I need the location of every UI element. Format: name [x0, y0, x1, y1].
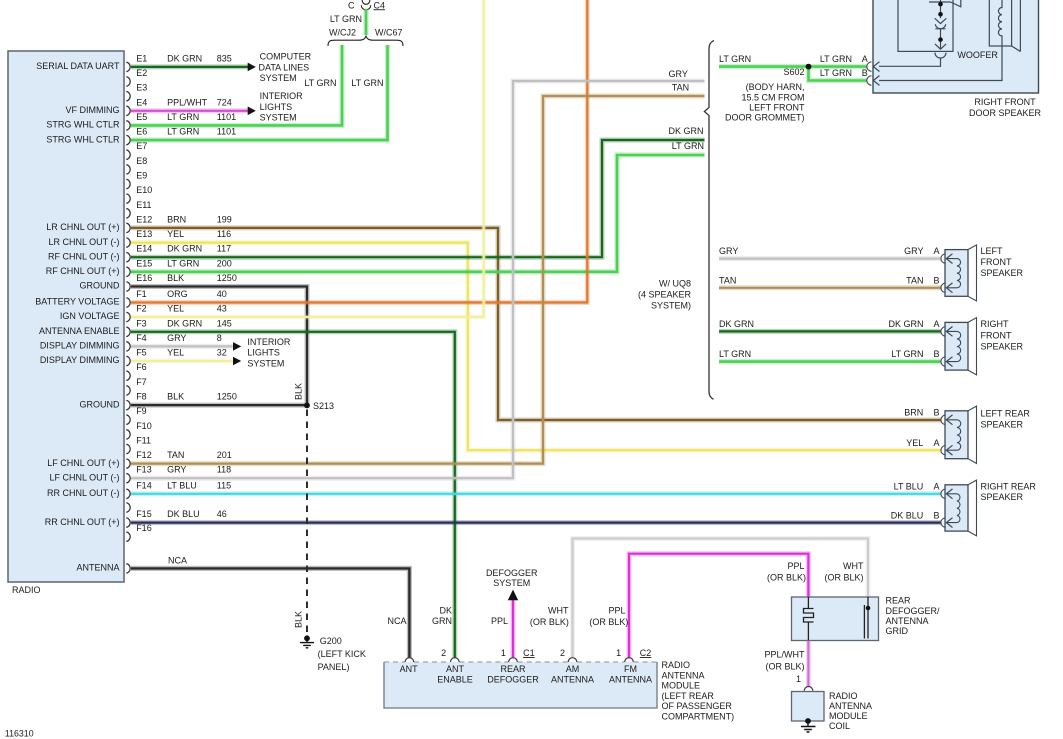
wire PPL/WHT (OR BLK) grid to coil [806, 641, 811, 687]
wire E6 LT GRN 1101 to W/C67 [131, 45, 388, 140]
svg-text:VF DIMMING: VF DIMMING [66, 105, 120, 115]
svg-text:ANTENNA: ANTENNA [76, 563, 119, 573]
svg-text:IGN VOLTAGE: IGN VOLTAGE [60, 311, 120, 321]
labels W/CJ2 W/C67 [329, 28, 403, 38]
svg-text:STRG WHL CTLR: STRG WHL CTLR [46, 120, 120, 130]
svg-text:LEFT REAR: LEFT REAR [981, 409, 1031, 419]
svg-text:SPEAKER: SPEAKER [981, 268, 1024, 278]
svg-text:ANT: ANT [446, 664, 465, 674]
labels LT GRN A / LT GRN B at door speaker [719, 54, 868, 78]
wire LT GRN from C4 [363, 9, 368, 35]
label LT GRN (C4 wire) [330, 14, 362, 24]
svg-text:DEFOGGER: DEFOGGER [486, 568, 538, 578]
svg-text:ANTENNA ENABLE: ANTENNA ENABLE [39, 326, 120, 336]
svg-text:GRY: GRY [167, 465, 186, 475]
wire BLK dashed S213 to G200 [306, 410, 308, 636]
svg-text:A: A [933, 319, 939, 329]
svg-text:F7: F7 [136, 377, 147, 387]
connector C4 symbol [361, 0, 370, 10]
svg-text:RADIO: RADIO [12, 585, 41, 595]
svg-text:32: 32 [217, 348, 227, 358]
labels BRN B (left rear) [904, 407, 939, 417]
label RIGHT FRONT SPEAKER [981, 319, 1024, 351]
svg-text:E4: E4 [136, 97, 147, 107]
svg-text:46: 46 [217, 509, 227, 519]
svg-text:GRY: GRY [167, 333, 186, 343]
svg-text:BATTERY VOLTAGE: BATTERY VOLTAGE [35, 297, 119, 307]
label W/ UQ8 (4 speaker system) [638, 278, 692, 310]
labels DK GRN A (right front) [719, 319, 940, 329]
module pin sockets [405, 658, 633, 662]
svg-text:E8: E8 [136, 156, 147, 166]
wire E5 LT GRN 1101 to W/CJ2 [131, 45, 342, 125]
module top edge (dashed) [384, 661, 657, 663]
svg-text:F3: F3 [136, 318, 147, 328]
svg-text:DEFOGGER/: DEFOGGER/ [886, 606, 941, 616]
wire colour and circuit number labels [167, 53, 237, 519]
door speaker inner circuit box [898, 0, 953, 51]
svg-text:SPEAKER: SPEAKER [981, 341, 1024, 351]
svg-text:SYSTEM: SYSTEM [260, 73, 297, 83]
label S602 body harness location [725, 82, 805, 122]
svg-text:GRID: GRID [886, 626, 909, 636]
svg-text:SERIAL DATA UART: SERIAL DATA UART [36, 61, 120, 71]
svg-text:201: 201 [217, 450, 232, 460]
labels PPL (OR BLK) at module [589, 606, 628, 627]
svg-text:GROUND: GROUND [80, 399, 120, 409]
svg-text:DISPLAY DIMMING: DISPLAY DIMMING [40, 341, 120, 351]
svg-text:E14: E14 [136, 244, 152, 254]
svg-text:S602: S602 [783, 67, 804, 77]
svg-text:GRY: GRY [719, 246, 738, 256]
radio connector box U1 [8, 51, 124, 595]
svg-text:LT GRN: LT GRN [304, 78, 336, 88]
svg-text:F11: F11 [136, 436, 151, 446]
svg-text:BRN: BRN [167, 214, 186, 224]
svg-text:WHT: WHT [548, 606, 569, 616]
radio pin function labels [35, 61, 120, 572]
svg-text:INTERIOR: INTERIOR [247, 337, 291, 347]
svg-text:(OR BLK): (OR BLK) [765, 661, 804, 671]
svg-text:AM: AM [566, 664, 580, 674]
svg-text:COIL: COIL [829, 721, 850, 731]
svg-text:115: 115 [217, 480, 231, 490]
left rear speaker [941, 406, 977, 463]
svg-text:OF PASSENGER: OF PASSENGER [662, 701, 733, 711]
svg-text:B: B [933, 510, 939, 520]
svg-text:SPEAKER: SPEAKER [981, 419, 1024, 429]
wire WHT (OR BLK) AM antenna to grid [573, 539, 869, 659]
labels PPL/WHT (OR BLK) 1 [764, 650, 805, 684]
svg-text:F8: F8 [136, 392, 147, 402]
svg-text:ANT: ANT [400, 664, 419, 674]
svg-text:C: C [348, 0, 355, 10]
wire E16 BLK 1250 to splice S213 [131, 287, 307, 406]
svg-text:40: 40 [217, 289, 227, 299]
left front speaker [941, 245, 977, 301]
svg-text:PPL: PPL [491, 616, 508, 626]
svg-text:LR CHNL OUT (+): LR CHNL OUT (+) [46, 222, 119, 232]
label DK GRN at module [432, 606, 452, 627]
svg-text:B: B [862, 68, 868, 78]
svg-text:A: A [933, 482, 939, 492]
ground at coil [801, 718, 816, 732]
svg-text:BLK: BLK [294, 611, 304, 628]
pin number labels F1-F16 [136, 289, 152, 533]
svg-text:S213: S213 [313, 401, 334, 411]
svg-text:E11: E11 [136, 200, 151, 210]
svg-text:DEFOGGER: DEFOGGER [487, 675, 539, 685]
wire PPL rear defogger feed [511, 600, 516, 659]
svg-text:LIGHTS: LIGHTS [247, 348, 280, 358]
woofer coil and wire to pin B [879, 0, 1002, 81]
svg-text:F15: F15 [136, 509, 152, 519]
wire F12 TAN 201 to UQ8 harness [131, 96, 705, 464]
svg-text:116: 116 [217, 229, 231, 239]
svg-text:F13: F13 [136, 465, 152, 475]
svg-text:116310: 116310 [5, 728, 34, 738]
door speaker pin B connector [867, 76, 872, 85]
svg-text:DISPLAY DIMMING: DISPLAY DIMMING [40, 355, 120, 365]
arrow to defogger system [508, 590, 518, 601]
svg-text:(LEFT KICK: (LEFT KICK [318, 649, 366, 659]
svg-text:A: A [933, 438, 939, 448]
svg-text:SPEAKER: SPEAKER [981, 492, 1024, 502]
right front speaker [941, 318, 977, 375]
svg-text:DK GRN: DK GRN [167, 318, 202, 328]
interior lights system label (E4) [260, 91, 304, 122]
svg-text:DK: DK [439, 606, 452, 616]
svg-text:ANTENNA: ANTENNA [662, 670, 705, 680]
labels LT GRN B (right front) [719, 349, 940, 359]
labels LT GRN at branch wires [304, 78, 383, 88]
svg-text:NCA: NCA [387, 616, 406, 626]
diagram number 116310 [5, 728, 34, 738]
wire LT GRN to right front speaker B [719, 359, 941, 364]
svg-text:GROUND: GROUND [80, 281, 120, 291]
labels PPL (OR BLK) at grid [767, 561, 806, 583]
svg-text:E12: E12 [136, 214, 152, 224]
svg-text:F1: F1 [136, 289, 147, 299]
computer data lines system label [259, 52, 312, 83]
brace splitting W/CJ2 and W/C67 [328, 36, 403, 46]
svg-text:F9: F9 [136, 406, 147, 416]
tweeter cone (cut off at top) [929, 0, 961, 7]
svg-text:LT BLU: LT BLU [894, 482, 924, 492]
svg-text:DK GRN: DK GRN [167, 244, 202, 254]
labels LT BLU A (right rear) [894, 482, 940, 492]
svg-text:DK GRN: DK GRN [888, 319, 923, 329]
label DEFOGGER SYSTEM [486, 568, 538, 588]
svg-text:LF CHNL OUT (+): LF CHNL OUT (+) [47, 458, 119, 468]
svg-text:RF CHNL OUT (-): RF CHNL OUT (-) [48, 251, 120, 261]
svg-text:DK GRN: DK GRN [669, 126, 704, 136]
svg-text:MODULE: MODULE [829, 711, 868, 721]
svg-text:W/C67: W/C67 [375, 28, 403, 38]
wire F3 DK GRN 145 antenna enable [131, 332, 455, 658]
svg-text:(4 SPEAKER: (4 SPEAKER [638, 289, 692, 299]
svg-text:PPL/WHT: PPL/WHT [764, 650, 805, 660]
svg-text:LT GRN: LT GRN [167, 112, 199, 122]
svg-text:LT GRN: LT GRN [719, 349, 751, 359]
svg-text:GRN: GRN [432, 616, 452, 626]
svg-text:DOOR GROMMET): DOOR GROMMET) [725, 113, 805, 123]
svg-text:RIGHT: RIGHT [981, 319, 1010, 329]
wire PPL (OR BLK) FM antenna to grid [629, 554, 808, 659]
grid antenna lead-in symbol [864, 597, 868, 639]
svg-text:LIGHTS: LIGHTS [260, 102, 293, 112]
radio connector pin brackets E1-E16 F1-F16 ANT [126, 62, 130, 573]
wire E1 DK GRN 835 to computer data lines [131, 64, 248, 69]
labels GRY A (left front) [719, 246, 940, 256]
svg-text:RR CHNL OUT (+): RR CHNL OUT (+) [45, 517, 120, 527]
wire DK GRN to right front speaker A [719, 329, 941, 334]
label NCA at module [387, 616, 406, 626]
label LEFT REAR SPEAKER [981, 409, 1031, 430]
svg-text:F6: F6 [136, 362, 147, 372]
defogger grid element symbol [804, 597, 814, 641]
svg-text:RF CHNL OUT (+): RF CHNL OUT (+) [46, 266, 120, 276]
label RADIO ANTENNA MODULE location [662, 660, 735, 722]
svg-text:DK GRN: DK GRN [167, 53, 202, 63]
svg-text:E15: E15 [136, 258, 152, 268]
svg-text:PPL: PPL [787, 561, 804, 571]
radio antenna module box [384, 662, 657, 708]
wire F14 LT BLU 115 to right rear speaker A [131, 491, 941, 496]
wire F2 YEL 43 (ign voltage, off top) [131, 0, 484, 317]
svg-text:118: 118 [217, 465, 231, 475]
svg-text:PPL/WHT: PPL/WHT [167, 97, 208, 107]
right rear speaker [941, 480, 977, 536]
svg-text:NCA: NCA [168, 556, 187, 566]
wire F8 BLK 1250 ground to S213 [131, 403, 305, 408]
wire NCA antenna lead [131, 568, 409, 658]
wire E12 BRN 199 to left rear speaker B [131, 228, 941, 420]
svg-text:LEFT: LEFT [981, 246, 1004, 256]
wire GRY to left front speaker A [719, 256, 941, 261]
svg-text:DK BLU: DK BLU [167, 509, 200, 519]
label NCA (antenna lead) [168, 556, 187, 566]
labels DK BLU B (right rear) [891, 510, 940, 520]
svg-text:2: 2 [560, 648, 565, 658]
svg-text:DK BLU: DK BLU [891, 510, 924, 520]
svg-text:F10: F10 [136, 421, 152, 431]
W/ UQ8 harness brace [704, 41, 714, 400]
label WOOFER [957, 50, 998, 60]
svg-text:(OR BLK): (OR BLK) [589, 617, 628, 627]
svg-text:C4: C4 [374, 0, 386, 10]
svg-text:LT GRN: LT GRN [167, 258, 199, 268]
svg-text:BLK: BLK [294, 383, 304, 400]
svg-text:(OR BLK): (OR BLK) [530, 617, 569, 627]
wire F15 DK BLU 46 to right rear speaker B [131, 520, 941, 525]
svg-text:FRONT: FRONT [981, 330, 1012, 340]
svg-text:C1: C1 [523, 648, 535, 658]
svg-text:ANTENNA: ANTENNA [551, 675, 594, 685]
svg-text:RIGHT REAR: RIGHT REAR [981, 482, 1037, 492]
label LEFT FRONT SPEAKER [981, 246, 1024, 278]
harness input labels GRY TAN DK GRN LT GRN [669, 69, 704, 151]
svg-text:FM: FM [624, 664, 637, 674]
svg-text:F5: F5 [136, 348, 147, 358]
svg-text:LR CHNL OUT (-): LR CHNL OUT (-) [48, 237, 119, 247]
svg-text:A: A [933, 246, 939, 256]
svg-text:GRY: GRY [904, 246, 923, 256]
wire F4 GRY 8 display dimming [131, 344, 233, 349]
wire E14 DK GRN 117 to UQ8 harness [131, 140, 705, 257]
svg-text:TAN: TAN [719, 275, 736, 285]
wire TAN to left front speaker B [719, 285, 941, 290]
pin numbers 2 1 C1 2 1 C2 [441, 648, 651, 658]
svg-text:LT BLU: LT BLU [167, 480, 197, 490]
wire F13 GRY 118 to UQ8 harness [131, 81, 705, 478]
svg-text:ENABLE: ENABLE [437, 675, 473, 685]
svg-text:E2: E2 [136, 68, 147, 78]
svg-text:REAR: REAR [500, 664, 526, 674]
labels TAN B (left front) [719, 275, 940, 285]
svg-text:145: 145 [217, 318, 232, 328]
svg-text:C2: C2 [640, 648, 652, 658]
splice S213 [304, 401, 334, 411]
svg-text:B: B [933, 275, 939, 285]
svg-text:MODULE: MODULE [662, 681, 701, 691]
wire F5 YEL 32 display dimming [131, 359, 233, 364]
svg-text:LT GRN: LT GRN [891, 349, 923, 359]
svg-text:DATA LINES: DATA LINES [259, 62, 310, 72]
svg-text:RIGHT FRONT: RIGHT FRONT [974, 97, 1036, 107]
svg-text:F12: F12 [136, 450, 152, 460]
svg-text:724: 724 [217, 97, 232, 107]
svg-text:(OR BLK): (OR BLK) [767, 573, 806, 583]
svg-text:BLK: BLK [167, 392, 184, 402]
svg-text:A: A [862, 54, 868, 64]
svg-text:SYSTEM: SYSTEM [260, 113, 297, 123]
module pin names [400, 664, 652, 685]
woofer cone [1012, 0, 1021, 52]
svg-text:LF CHNL OUT (-): LF CHNL OUT (-) [49, 472, 119, 482]
svg-text:LT GRN: LT GRN [820, 68, 852, 78]
svg-text:E9: E9 [136, 171, 147, 181]
wire E13 YEL 116 to left rear speaker A [131, 243, 941, 451]
wire E4 PPL/WHT 724 to interior lights [131, 108, 248, 113]
svg-text:PANEL): PANEL) [318, 662, 350, 672]
svg-text:LT GRN: LT GRN [719, 54, 751, 64]
svg-text:199: 199 [217, 214, 232, 224]
svg-text:WOOFER: WOOFER [957, 50, 998, 60]
svg-text:STRG WHL CTLR: STRG WHL CTLR [46, 134, 120, 144]
svg-text:1101: 1101 [217, 112, 236, 122]
svg-text:B: B [933, 349, 939, 359]
wire E15 LT GRN 200 to UQ8 harness [131, 155, 705, 272]
label BLK (vertical, dashed riser) [294, 611, 304, 628]
svg-text:B: B [933, 407, 939, 417]
svg-text:WHT: WHT [843, 561, 864, 571]
svg-text:(BODY HARN,: (BODY HARN, [746, 82, 805, 92]
radio antenna module coil box [792, 692, 825, 722]
svg-text:E1: E1 [136, 53, 147, 63]
svg-text:F14: F14 [136, 480, 152, 490]
wire LT GRN to splice S602 and right front door speaker A [719, 64, 867, 69]
svg-text:8: 8 [217, 333, 222, 343]
svg-text:SYSTEM): SYSTEM) [651, 301, 691, 311]
svg-text:REAR: REAR [886, 596, 912, 606]
node C / C4 labels [348, 0, 385, 10]
svg-text:GRY: GRY [669, 69, 688, 79]
svg-text:1250: 1250 [217, 392, 237, 402]
svg-text:YEL: YEL [167, 229, 184, 239]
svg-text:E10: E10 [136, 185, 152, 195]
svg-text:W/ UQ8: W/ UQ8 [659, 278, 691, 288]
label RIGHT REAR SPEAKER [981, 482, 1037, 502]
svg-text:TAN: TAN [167, 450, 184, 460]
svg-text:BRN: BRN [904, 407, 923, 417]
svg-text:15.5 CM FROM: 15.5 CM FROM [741, 92, 804, 102]
svg-text:YEL: YEL [906, 438, 923, 448]
svg-text:E13: E13 [136, 229, 152, 239]
svg-text:1: 1 [501, 648, 506, 658]
svg-text:LT GRN: LT GRN [330, 14, 362, 24]
svg-text:DK GRN: DK GRN [719, 319, 754, 329]
labels YEL A (left rear) [906, 438, 939, 448]
svg-text:ANTENNA: ANTENNA [609, 675, 652, 685]
labels WHT (OR BLK) at grid [824, 561, 864, 583]
svg-text:LT GRN: LT GRN [351, 78, 383, 88]
labels WHT (OR BLK) at module [530, 606, 569, 627]
crossover chain with capacitor and drivers [879, 0, 946, 66]
svg-text:ORG: ORG [167, 289, 188, 299]
svg-text:RR CHNL OUT (-): RR CHNL OUT (-) [47, 488, 120, 498]
splice S602 [783, 64, 811, 78]
svg-text:PPL: PPL [608, 606, 625, 616]
svg-text:RADIO: RADIO [829, 691, 858, 701]
wire F1 ORG 40 (battery voltage, off top) [131, 0, 587, 303]
label BLK (vertical, E16 riser) [294, 383, 304, 400]
svg-text:1: 1 [616, 648, 621, 658]
pin number labels E1-E16 [136, 53, 152, 283]
svg-text:117: 117 [217, 244, 231, 254]
svg-text:ANTENNA: ANTENNA [886, 616, 929, 626]
door speaker pin A connector [867, 62, 872, 71]
right front door speaker box [873, 0, 1039, 93]
woofer voice-coil box [989, 0, 1011, 46]
rear defogger / antenna grid box [792, 597, 879, 641]
coil pin 1 socket [804, 687, 813, 691]
svg-text:COMPUTER: COMPUTER [260, 52, 312, 62]
svg-text:(OR BLK): (OR BLK) [824, 573, 863, 583]
svg-text:TAN: TAN [672, 83, 689, 93]
svg-text:YEL: YEL [167, 348, 184, 358]
svg-text:E3: E3 [136, 83, 147, 93]
svg-text:LT GRN: LT GRN [672, 141, 704, 151]
svg-text:LEFT FRONT: LEFT FRONT [749, 102, 805, 112]
ground G200 (left kick panel) [300, 635, 366, 672]
svg-text:TAN: TAN [906, 275, 923, 285]
svg-text:RADIO: RADIO [662, 660, 691, 670]
svg-text:835: 835 [217, 53, 232, 63]
svg-text:FRONT: FRONT [981, 257, 1012, 267]
label RADIO ANTENNA MODULE COIL [829, 691, 872, 731]
wire LT GRN S602 branch to door speaker B [809, 67, 867, 81]
svg-text:SYSTEM: SYSTEM [247, 358, 284, 368]
svg-text:E5: E5 [136, 112, 147, 122]
svg-text:ANTENNA: ANTENNA [829, 701, 872, 711]
svg-text:W/CJ2: W/CJ2 [329, 28, 356, 38]
svg-text:(LEFT REAR: (LEFT REAR [662, 691, 715, 701]
svg-text:F4: F4 [136, 333, 147, 343]
svg-text:LT GRN: LT GRN [820, 54, 852, 64]
interior lights system label (F4/F5) [247, 337, 291, 368]
svg-text:SYSTEM: SYSTEM [493, 578, 530, 588]
